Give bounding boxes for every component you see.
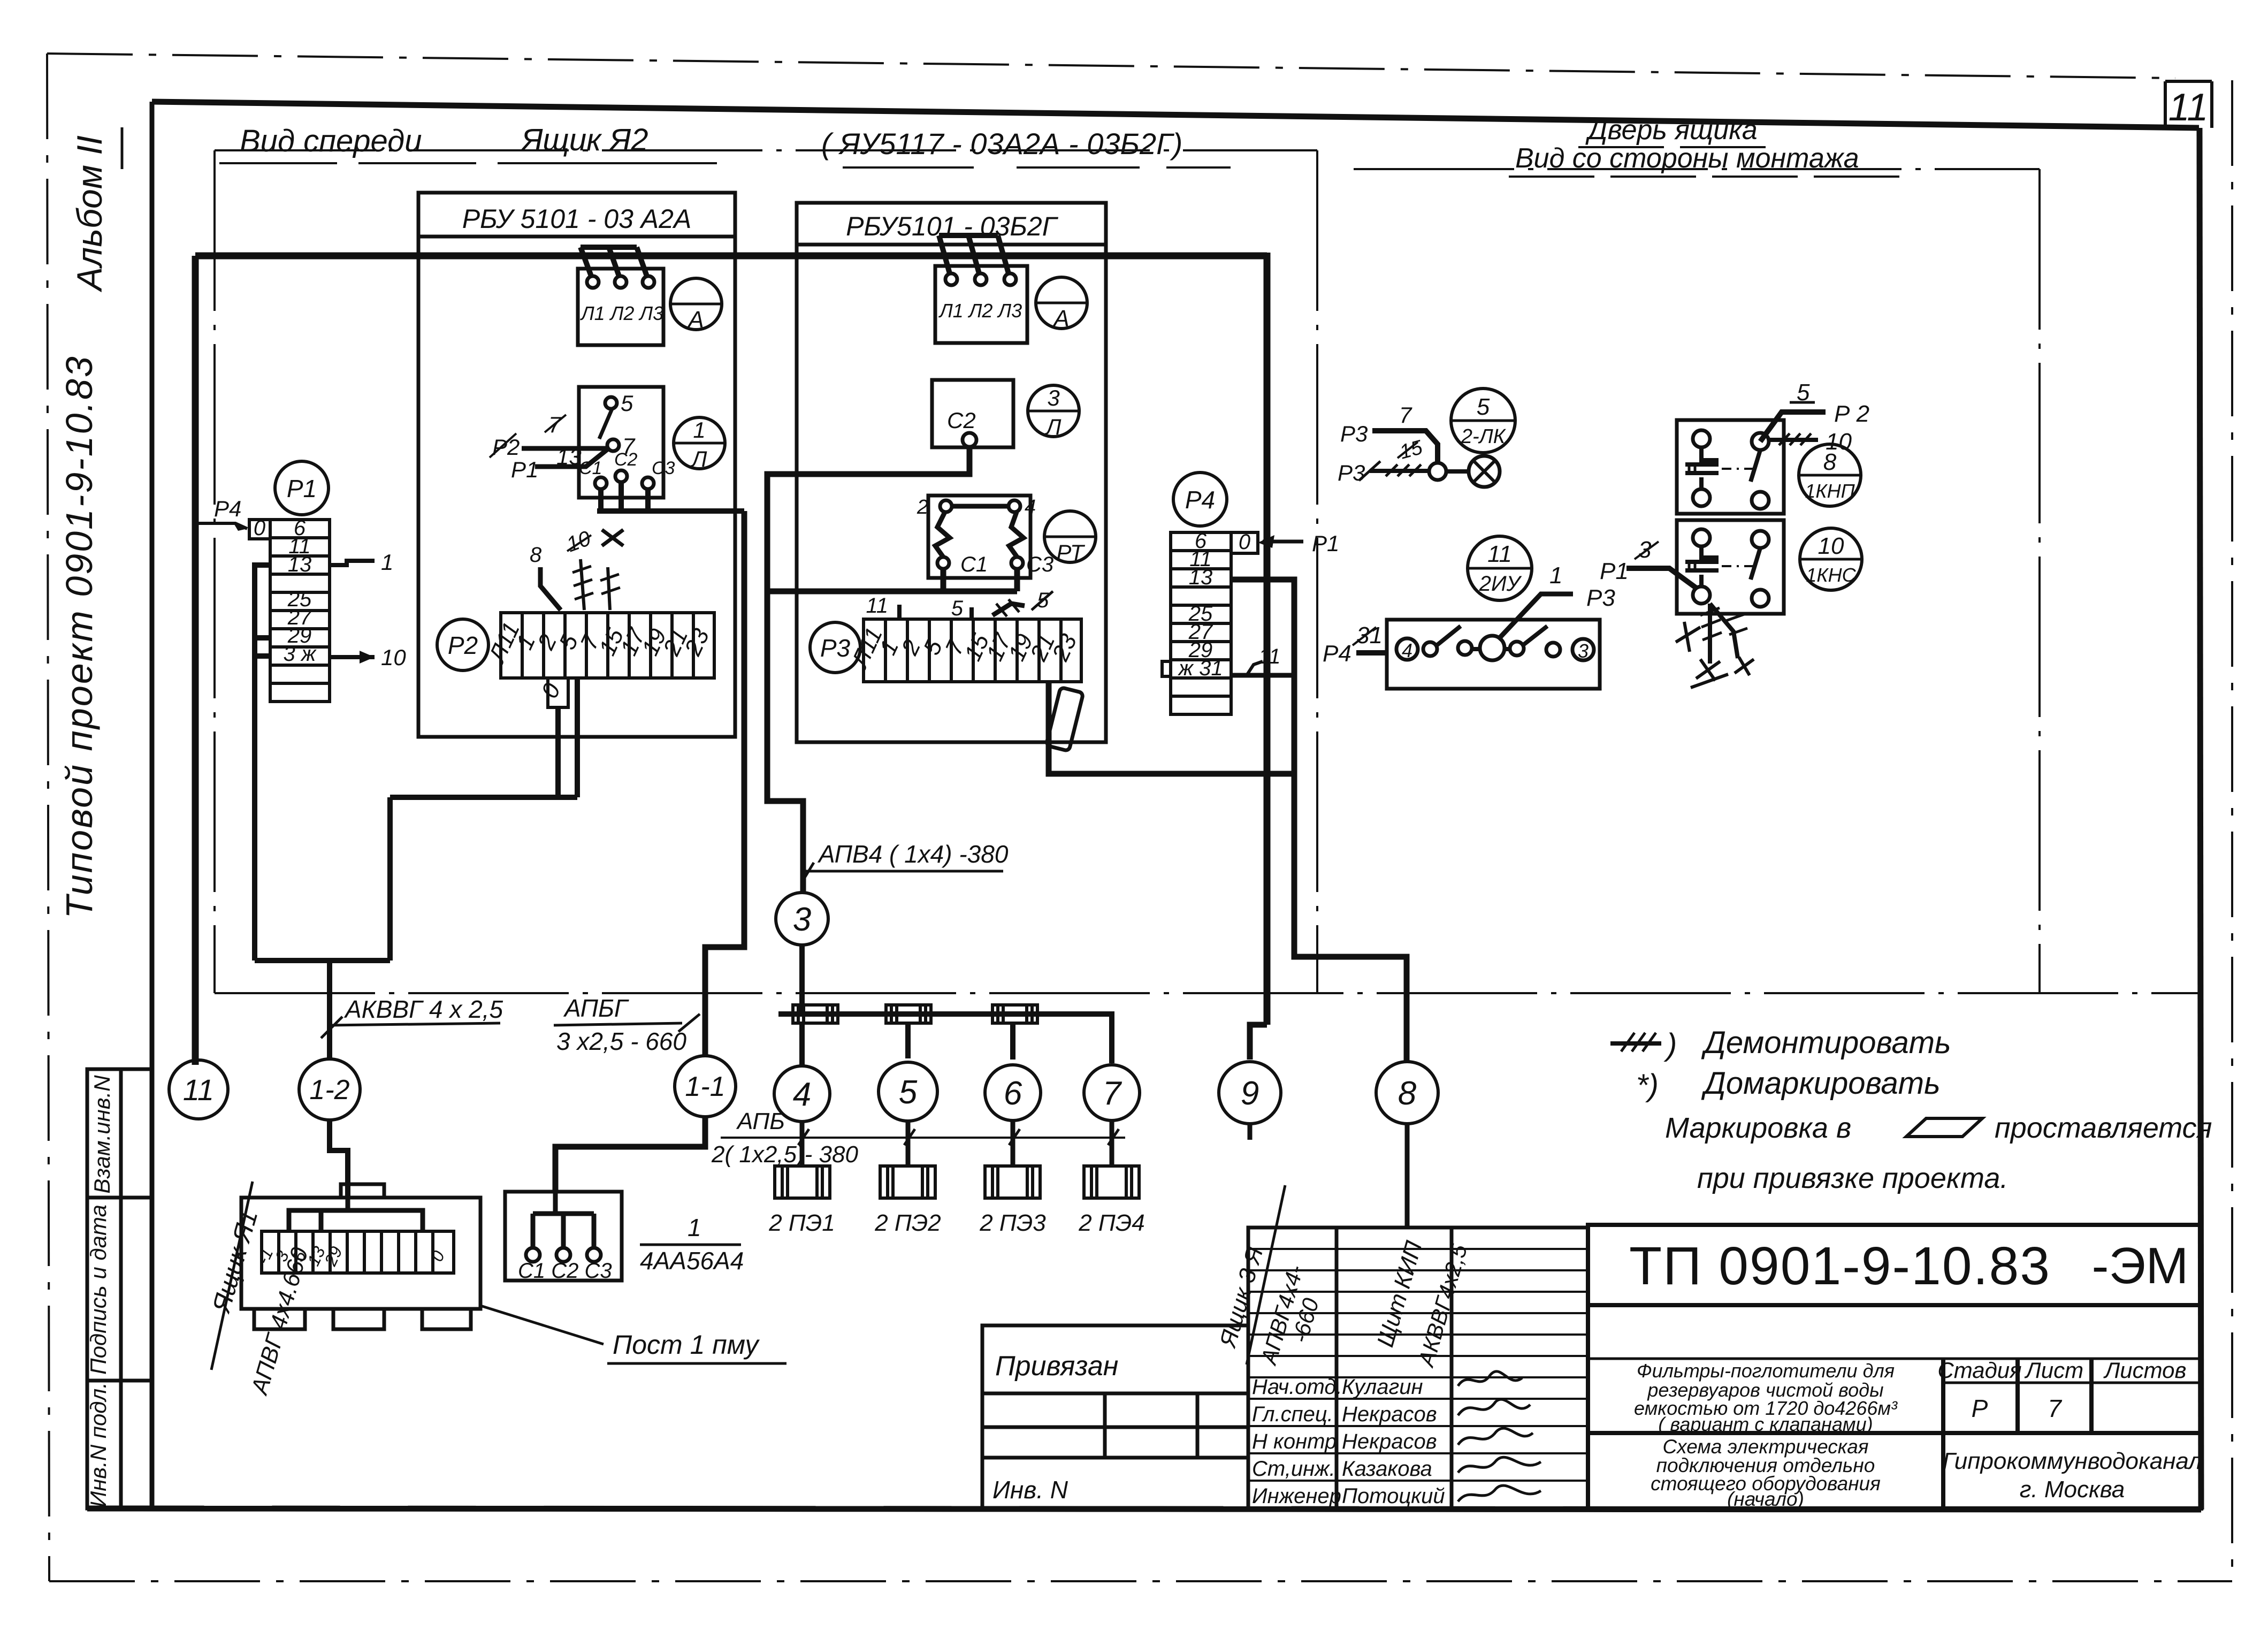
wire: stub 10 from row 3ж: [330, 655, 375, 659]
svg-text:11: 11: [1487, 541, 1512, 567]
sheet name: [1651, 1436, 1881, 1510]
main title block frame: [1588, 1225, 2201, 1508]
ammeter terminal box Л1Л2Л3 (left): [578, 269, 663, 345]
svg-text:Р4: Р4: [214, 496, 241, 521]
svg-text:2: 2: [917, 496, 928, 519]
svg-text:*): *): [1636, 1068, 1659, 1103]
svg-text:0: 0: [1239, 530, 1250, 554]
svg-text:С1 С2 С3: С1 С2 С3: [518, 1259, 612, 1283]
wire: circle 3 to fuse bus: [799, 945, 805, 1014]
svg-text:Р1: Р1: [1312, 531, 1339, 556]
Пост 1ПМУ terminal strip: [262, 1231, 454, 1273]
svg-text:Р3: Р3: [1338, 460, 1365, 485]
svg-text:5: 5: [899, 1074, 918, 1111]
svg-text:11: 11: [1258, 645, 1281, 668]
svg-text:( вариант с клапанами): ( вариант с клапанами): [1658, 1413, 1873, 1435]
cable circle 3: [776, 893, 828, 945]
svg-text:2-ЛК: 2-ЛК: [1461, 425, 1507, 448]
relay circle Р2: [437, 619, 488, 670]
svg-text:Нач.отд.: Нач.отд.: [1252, 1375, 1342, 1399]
cable circle 8: [1376, 1062, 1438, 1124]
svg-text:4АА56А4: 4АА56А4: [640, 1247, 744, 1275]
svg-text:Демонтировать: Демонтировать: [1701, 1025, 1951, 1060]
svg-text:6: 6: [1004, 1075, 1022, 1112]
wire: Р1 arrow into 0 cell of Р4 strip: [1263, 540, 1303, 544]
relay circle Р4: [1173, 472, 1227, 526]
svg-text:Лист: Лист: [2024, 1358, 2083, 1383]
lamp circuit Р3 wires: [1372, 431, 1438, 463]
svg-text:Р3: Р3: [1586, 585, 1615, 611]
switch box (left): [579, 387, 663, 498]
svg-text:3 ж: 3 ж: [284, 642, 317, 666]
svg-text:2 ПЭ4: 2 ПЭ4: [1078, 1210, 1145, 1236]
wire: bus drops into Л1Л2Л3 (right): [939, 235, 1009, 273]
heater 2ПЭ3: [985, 1166, 1040, 1198]
С1С2С3 box: [505, 1192, 622, 1281]
svg-text:С1: С1: [960, 553, 988, 576]
heater 2ПЭ2: [880, 1166, 935, 1198]
wire: Р2 line to switch pin 7 (demounted): [522, 446, 607, 451]
heater 2ПЭ4: [1084, 1166, 1139, 1198]
svg-text:Л: Л: [690, 446, 707, 471]
circle 10/1КНС: [1800, 528, 1862, 590]
svg-text:-ЭМ: -ЭМ: [2092, 1237, 2189, 1294]
svg-text:7: 7: [1399, 402, 1412, 428]
signature table (tall columns): [1248, 1228, 1588, 1508]
svg-text:Гл.спец.: Гл.спец.: [1252, 1403, 1333, 1426]
sheet number box 11: [2165, 81, 2212, 129]
svg-text:С3: С3: [652, 458, 675, 478]
svg-text:( ЯУ5117 - 03А2А - 03Б2Г): ( ЯУ5117 - 03А2А - 03Б2Г): [821, 127, 1182, 161]
wire drops below cables 4-7 to heaters: [802, 1121, 1112, 1166]
ammeter terminal box Л1Л2Л3 (right): [935, 266, 1027, 343]
ammeter A (left): [670, 278, 722, 333]
svg-text:9: 9: [1241, 1075, 1259, 1112]
svg-text:АПВ4 ( 1х4) -380: АПВ4 ( 1х4) -380: [817, 840, 1009, 868]
object name: [1634, 1360, 1898, 1435]
svg-text:Инв. N: Инв. N: [992, 1476, 1068, 1504]
svg-text:Р4: Р4: [1323, 641, 1351, 667]
svg-text:2 ПЭ3: 2 ПЭ3: [979, 1210, 1046, 1236]
svg-text:11: 11: [183, 1073, 214, 1107]
fuse 3: [992, 1005, 1037, 1023]
cable circle 7: [1084, 1065, 1140, 1121]
svg-text:8: 8: [1823, 449, 1837, 475]
svg-text:РТ: РТ: [1056, 540, 1086, 565]
wire: row ж31 link with hook 11: [1231, 673, 1294, 678]
wire: row 13 to right riser: [1231, 580, 1407, 1061]
svg-text:1: 1: [381, 550, 393, 575]
cable label line АПБ 2(1х2,5)-380: [721, 1137, 1125, 1139]
svg-text:Привязан: Привязан: [995, 1351, 1118, 1382]
wire: drop to cable 1-2: [327, 961, 332, 1061]
fuse bus with fuses: [778, 1014, 1112, 1063]
wire: main bus from left down-feed: [195, 253, 1267, 260]
svg-text:13: 13: [556, 444, 582, 469]
svg-text:Р1: Р1: [1600, 558, 1629, 584]
svg-text:3: 3: [1638, 537, 1652, 563]
svg-text:Стадия: Стадия: [1937, 1358, 2021, 1383]
svg-text:2( 1х2,5)- 380: 2( 1х2,5)- 380: [711, 1141, 858, 1168]
relay circle Р3: [810, 622, 860, 673]
Привязан table: [982, 1325, 1248, 1508]
svg-text:проставляется: проставляется: [1995, 1112, 2212, 1144]
svg-text:Р: Р: [1972, 1394, 1988, 1422]
svg-text:7: 7: [1103, 1075, 1122, 1112]
svg-text:1-1: 1-1: [685, 1071, 725, 1102]
svg-text:1КНП: 1КНП: [1805, 480, 1855, 502]
wire: switch C1-C3 to collector: [597, 482, 744, 511]
svg-text:С2: С2: [614, 449, 638, 470]
svg-text:1: 1: [693, 417, 705, 443]
svg-text:Альбом II: Альбом II: [70, 135, 109, 293]
svg-text:Р 2: Р 2: [1834, 401, 1869, 427]
wire: Р1 3 to 1КНС: [1626, 568, 1697, 589]
wire: stub 1 from row 13: [330, 561, 375, 565]
svg-text:4: 4: [1402, 639, 1412, 661]
svg-text:4: 4: [1025, 496, 1036, 519]
svg-text:8: 8: [530, 543, 542, 567]
svg-text:Листов: Листов: [2103, 1358, 2187, 1383]
marks 11 / 5 / 5x above strip Р3: [897, 605, 902, 619]
svg-text:АКВВГ 4 х 2,5: АКВВГ 4 х 2,5: [343, 995, 503, 1023]
svg-text:С3: С3: [1026, 553, 1053, 576]
svg-text:Пост 1 пму: Пост 1 пму: [613, 1330, 760, 1360]
wire: cable 1-1 down to С1С2С3 box: [555, 1117, 705, 1192]
wire: strip 21 down with marking flag to Р4 link: [1049, 682, 1294, 774]
svg-text:Р3: Р3: [820, 634, 851, 662]
svg-text:Казакова: Казакова: [1342, 1457, 1432, 1481]
circle 8/1КНП: [1799, 444, 1861, 506]
svg-text:А: А: [1052, 306, 1069, 332]
svg-text:13: 13: [288, 553, 312, 576]
cable circle 6: [985, 1065, 1041, 1121]
wire: cable 1-2 to Пост 1ПМУ: [330, 1120, 348, 1198]
cable circle 1-1: [675, 1056, 736, 1117]
svg-text:1КНС: 1КНС: [1806, 564, 1856, 586]
svg-text:Р1: Р1: [287, 475, 317, 502]
svg-text:РБУ 5101 - 03 А2А: РБУ 5101 - 03 А2А: [462, 204, 692, 234]
wire: C2 down / left / down to heater bus: [767, 447, 969, 893]
marks 8 / 10 / X above strip Р2: [540, 559, 620, 610]
universal switch 2ИУ box: [1387, 620, 1600, 689]
svg-text:Маркировка в: Маркировка в: [1665, 1112, 1851, 1144]
svg-text:7: 7: [2048, 1394, 2062, 1422]
svg-text:11: 11: [2168, 86, 2209, 129]
terminal strip Р2: [501, 613, 714, 707]
svg-text:Инв.N подл.: Инв.N подл.: [86, 1382, 111, 1507]
svg-text:Р2: Р2: [448, 631, 478, 659]
svg-text:Типовой проект 0901-9-10.83: Типовой проект 0901-9-10.83: [58, 355, 100, 918]
svg-text:8: 8: [1398, 1075, 1417, 1112]
cable circle 5: [879, 1062, 937, 1121]
enclosure door (thin dash-dot): [1354, 169, 2040, 993]
cable label Ящик 3Я АПВГ4х4-660 (at cable 9): [1248, 1124, 1253, 1140]
wire: Р4 31 into 2ИУ: [1356, 650, 1387, 656]
svg-text:Л: Л: [1044, 414, 1062, 439]
svg-text:11: 11: [866, 594, 888, 618]
svg-text:А: А: [686, 307, 704, 333]
C2 box: [932, 380, 1013, 447]
cable circle 9: [1219, 1062, 1281, 1124]
svg-text:3: 3: [1047, 385, 1059, 410]
circle РТ: [1044, 511, 1096, 565]
svg-text:0: 0: [254, 516, 265, 540]
svg-text:Гипрокоммунводоканал: Гипрокоммунводоканал: [1943, 1448, 2202, 1474]
svg-text:г. Москва: г. Москва: [2020, 1476, 2125, 1503]
svg-text:ТП 0901-9-10.83: ТП 0901-9-10.83: [1629, 1236, 2052, 1296]
svg-text:при привязке проекта.: при привязке проекта.: [1697, 1162, 2008, 1194]
circle 11/2ИУ: [1468, 536, 1532, 600]
svg-text:1: 1: [1549, 562, 1562, 589]
wire: right bus corner down: [1264, 253, 1271, 1025]
svg-text:Р1: Р1: [511, 457, 538, 482]
unit box РБУ5101-03А2А: [418, 193, 735, 737]
fuse 1: [793, 1005, 838, 1023]
signatures squiggles: [1458, 1371, 1541, 1502]
svg-text:1-2: 1-2: [309, 1074, 349, 1106]
wire: riser to cable 1-1: [705, 511, 744, 1056]
note Демонтировать: [1610, 1033, 1661, 1051]
svg-text:(начало): (начало): [1727, 1488, 1804, 1510]
heater 2ПЭ1: [775, 1166, 830, 1198]
terminal strip Р4: [1162, 532, 1258, 714]
enclosure front view (thin dash-dot box): [215, 150, 2199, 993]
svg-text:ж 31: ж 31: [1177, 657, 1223, 680]
svg-text:2ИУ: 2ИУ: [1479, 572, 1522, 596]
fuse 2: [886, 1005, 931, 1023]
svg-text:1: 1: [688, 1214, 701, 1241]
wire: left bus down to cable 11: [192, 256, 199, 1065]
wire: bus drops into Л1Л2Л3 (left): [581, 247, 647, 276]
svg-text:31: 31: [1356, 622, 1383, 649]
pushbutton 1КНП box: [1677, 420, 1784, 514]
svg-text:4: 4: [793, 1076, 811, 1113]
svg-text:Фильтры-поглотители для: Фильтры-поглотители для: [1637, 1360, 1895, 1382]
svg-text:Р2: Р2: [492, 435, 520, 460]
svg-text:Р3: Р3: [1340, 421, 1368, 446]
svg-text:Ст,инж.: Ст,инж.: [1252, 1457, 1335, 1481]
svg-text:3: 3: [1578, 640, 1589, 662]
left revision table: [87, 1069, 151, 1508]
wire: Р1 line to switch pin 7: [535, 449, 607, 467]
РТ thermal relay box: [928, 496, 1030, 578]
svg-text:С2: С2: [947, 408, 976, 433]
circle 5/2-ЛК: [1451, 388, 1515, 453]
wire: P1 strip rows to left riser: [255, 565, 577, 961]
svg-text:2 ПЭ2: 2 ПЭ2: [874, 1210, 941, 1236]
svg-text:Взам.инв.N: Взам.инв.N: [89, 1075, 114, 1194]
marking flag (parallelogram): [1046, 687, 1083, 751]
wire: 1КНП to Р2 and 10: [1760, 412, 1826, 441]
demounting marks below 1КНС: [1676, 604, 1754, 688]
svg-text:Инженер: Инженер: [1252, 1484, 1341, 1508]
relay circle Р1: [275, 461, 329, 515]
svg-text:Л1 Л2 Л3: Л1 Л2 Л3: [938, 300, 1022, 322]
svg-text:Р4: Р4: [1185, 486, 1215, 514]
cable circle 4: [774, 1066, 830, 1122]
cable circle 1-2: [299, 1059, 360, 1120]
wire: strip jumpers in Пост box: [289, 1198, 423, 1231]
svg-text:3 х2,5 - 660: 3 х2,5 - 660: [556, 1027, 686, 1055]
svg-text:Домаркировать: Домаркировать: [1701, 1066, 1941, 1101]
junction circle: [1429, 463, 1446, 480]
svg-text:АПБГ: АПБГ: [563, 994, 629, 1022]
cable circle 11: [169, 1060, 228, 1119]
ammeter A (right): [1036, 277, 1087, 332]
svg-text:Дверь ящика: Дверь ящика: [1585, 115, 1758, 146]
svg-text:5: 5: [951, 597, 964, 620]
leader Пост 1 пму: [480, 1306, 604, 1344]
indicator 3/Л: [1028, 385, 1079, 439]
wire: main riser jog to cable 9: [1250, 1025, 1267, 1060]
svg-text:Кулагин: Кулагин: [1342, 1375, 1423, 1399]
indicator circle 1/Л: [674, 417, 725, 471]
wire drops to cables 4 5 6: [802, 1023, 1013, 1068]
svg-text:10: 10: [1818, 533, 1844, 559]
Пост 1ПМУ box: [241, 1184, 480, 1329]
unit box РБУ5101-03Б2Г: [797, 203, 1106, 742]
svg-text:13: 13: [1189, 566, 1213, 589]
terminal strip Р3: [864, 619, 1081, 682]
svg-text:Л1 Л2 Л3: Л1 Л2 Л3: [580, 302, 663, 324]
svg-text:10: 10: [381, 645, 406, 670]
svg-text:Некрасов: Некрасов: [1342, 1430, 1437, 1453]
pushbutton 1КНС box: [1677, 520, 1784, 614]
wire: C1 C3 drop bus: [767, 569, 1017, 591]
wire: Р4 feed arrow into 0 cell: [196, 523, 247, 529]
terminal strip Р1: [249, 520, 330, 702]
svg-text:Подпись и дата: Подпись и дата: [86, 1205, 111, 1375]
svg-text:5: 5: [1477, 394, 1490, 420]
wire: blade to Р3 label: [1498, 594, 1573, 639]
svg-text:Вид спереди: Вид спереди: [240, 124, 422, 158]
svg-text:Потоцкий: Потоцкий: [1342, 1484, 1445, 1508]
svg-text:5: 5: [621, 391, 633, 416]
cable label Щит КИП АКВВГ4х2,5 (at cable 8): [1405, 1124, 1410, 1228]
lamp symbol: [1446, 469, 1469, 474]
svg-text:Н контр: Н контр: [1252, 1430, 1337, 1453]
svg-text:Некрасов: Некрасов: [1342, 1403, 1437, 1426]
svg-text:Ящик Я2: Ящик Я2: [520, 123, 648, 157]
svg-text:3: 3: [793, 901, 811, 938]
svg-text:2 ПЭ1: 2 ПЭ1: [768, 1210, 835, 1236]
svg-text:АПБ: АПБ: [736, 1108, 785, 1134]
